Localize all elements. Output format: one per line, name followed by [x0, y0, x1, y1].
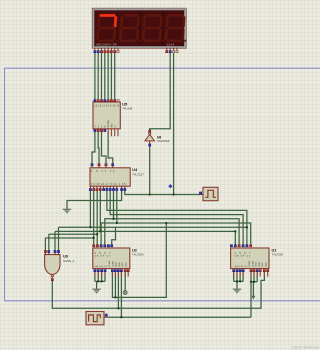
node marker blue diamond — [168, 184, 172, 188]
wire L6 to NAND input 4 — [58, 227, 60, 250]
svg-text:2QA: 2QA — [255, 262, 258, 267]
svg-text:74LS48: 74LS48 — [122, 107, 132, 111]
svg-text:2QB: 2QB — [259, 262, 261, 267]
wire bus L6 horizontal — [59, 226, 247, 228]
wire bus L4 U2 to U1 — [105, 219, 239, 245]
NAND gate U3 — [44, 250, 74, 280]
wire bus L2 U4 to U1 — [110, 191, 243, 244]
wire U4 pin to L7 — [99, 191, 101, 231]
display pin stubs — [95, 48, 177, 51]
svg-text:3 6 10 13 4 7 9 12: 3 6 10 13 4 7 9 12 — [91, 183, 118, 186]
digit 1 (shows 7: segments a,b lit) — [96, 14, 120, 42]
wire U5.A to U4 — [92, 132, 95, 163]
wire digit2 to inverter input — [150, 53, 171, 130]
svg-text:ABCDEFG DP: ABCDEFG DP — [96, 43, 117, 47]
wire NAND output to master reset line — [52, 272, 264, 308]
wire bus L7 horizontal — [55, 231, 235, 244]
svg-text:1 15: 1 15 — [119, 183, 126, 186]
svg-text:NAND_4: NAND_4 — [63, 259, 75, 263]
U5 top pin indicators — [94, 100, 119, 102]
svg-text:RBI: RBI — [112, 123, 114, 127]
wire U2 pin to clock2 line — [120, 272, 122, 317]
wire segment A (display A to U5) — [94, 53, 96, 99]
U2 top pin indicators — [93, 245, 113, 247]
svg-text:2QA: 2QA — [115, 262, 118, 267]
wire inverter input from clock net — [149, 146, 151, 194]
wire segment D — [104, 53, 106, 99]
U1 bottom pin indicators — [233, 270, 269, 272]
U5 bottom pin indicators — [94, 129, 106, 131]
U4 bottom pin indicators — [89, 188, 126, 190]
wire U4 pin to L4 — [116, 191, 118, 223]
svg-text:2CKB: 2CKB — [252, 261, 254, 267]
wire U4 select to clock1 — [125, 191, 201, 195]
svg-text:2QD: 2QD — [126, 262, 128, 267]
digit 4 (off) — [164, 14, 188, 42]
inverter U6 — [145, 130, 170, 146]
U2 bottom pin stubs — [95, 272, 128, 277]
U2 bottom pin indicators — [94, 270, 130, 272]
wire U2 pin to carry line — [114, 272, 116, 297]
svg-text:BI/RBO: BI/RBO — [108, 120, 110, 128]
wire U2 ground merge — [95, 272, 105, 289]
wire L8 to NAND input 2 — [48, 234, 50, 250]
wire U1 ground merge — [234, 272, 243, 289]
lamp terminal under U2 — [123, 291, 127, 295]
svg-text:INVERTER: INVERTER — [157, 140, 170, 143]
svg-text:1A 1B CL: 1A 1B CL — [95, 265, 109, 268]
digit cell separators — [117, 11, 163, 47]
wire U4 pin to L6 — [89, 191, 91, 227]
svg-text:74LS390: 74LS390 — [272, 253, 284, 257]
7-segment display body — [92, 8, 186, 48]
svg-text:2QC: 2QC — [122, 262, 124, 267]
ground near U4 — [63, 209, 71, 212]
U1 top pin indicators — [230, 245, 252, 247]
svg-text:3 5 6 7: 3 5 6 7 — [235, 252, 252, 255]
svg-text:QA QB QC: QA QB QC — [95, 255, 111, 258]
ground under U2 — [92, 289, 100, 292]
wire segment B — [97, 53, 99, 99]
junction dots — [89, 193, 255, 318]
wire U5.C to U4 — [102, 132, 107, 163]
digit 2 (off) — [119, 14, 143, 42]
wire bus L1 U4 to U1 — [107, 191, 247, 244]
wire segment E — [107, 53, 109, 99]
svg-text:U6: U6 — [157, 135, 161, 139]
wire digit3 to mux clock net — [173, 53, 175, 195]
wire clock2 output line — [108, 272, 251, 317]
svg-text:2QD: 2QD — [266, 262, 268, 267]
svg-text:7 1 2 6: 7 1 2 6 — [95, 125, 107, 128]
wire U4 pin through to U2 (2) — [93, 191, 95, 244]
wire U5.B to U4 — [97, 132, 100, 163]
wire U1 terminal merge — [251, 272, 257, 296]
svg-text:2CKB: 2CKB — [112, 261, 114, 267]
wire segment G — [114, 53, 116, 99]
svg-text:2QB: 2QB — [119, 262, 121, 267]
clock source 2 — [86, 312, 108, 325]
svg-text:74LS390: 74LS390 — [132, 253, 144, 257]
wire L7 to NAND input 3 — [54, 231, 56, 250]
wire U4 pin through to U2 — [96, 191, 98, 244]
wire segment C — [101, 53, 103, 99]
svg-text:1A 1B CL: 1A 1B CL — [235, 265, 249, 268]
wire bus L3 U4 to U1 — [113, 191, 115, 219]
wire bus L8 horizontal — [49, 233, 97, 235]
svg-text:2CKA: 2CKA — [108, 261, 111, 267]
digit 3 (off) — [142, 14, 166, 42]
wire L9 to NAND input 1 — [44, 238, 46, 250]
svg-text:2CKA: 2CKA — [248, 261, 251, 267]
wire U2 top elbow — [112, 227, 116, 244]
svg-text:1234: 1234 — [167, 43, 175, 47]
wire U2 pin to lamp — [124, 272, 126, 290]
U5 74LS48 decoder — [93, 101, 133, 129]
clock source 1 — [199, 187, 218, 200]
U1 bottom pin stubs — [234, 272, 268, 277]
svg-text:13 12 11 10 9 15 14: 13 12 11 10 9 15 14 — [94, 105, 120, 108]
U5 unused bottom pin stubs — [108, 129, 118, 136]
U4 top pin indicators — [91, 164, 114, 166]
wire U5.D to U4 — [108, 132, 113, 163]
ground under U1 — [233, 289, 241, 292]
svg-text:QA QB QC: QA QB QC — [235, 255, 251, 258]
arrow terminal under U1 — [252, 296, 256, 300]
wire bus L5 U2QA net — [101, 223, 251, 244]
U2 74LS390 counter — [93, 247, 144, 268]
svg-text:2QC: 2QC — [262, 262, 264, 267]
svg-text:74LS157: 74LS157 — [132, 172, 144, 176]
display segment pin indicators — [94, 51, 178, 53]
wire bus L9 horizontal — [45, 237, 93, 239]
wire U2 pin to master reset — [117, 272, 119, 308]
U4 74LS157 multiplexer — [90, 166, 144, 188]
svg-text:3 5 6 7: 3 5 6 7 — [95, 252, 112, 255]
svg-text:CSDN @xiaowang: CSDN @xiaowang — [291, 346, 320, 350]
U1 74LS390 counter — [231, 247, 284, 268]
wire carry U2 up to bus level D — [112, 223, 166, 297]
wire U4 enable to ground — [67, 191, 122, 209]
wire segment F — [110, 53, 112, 99]
